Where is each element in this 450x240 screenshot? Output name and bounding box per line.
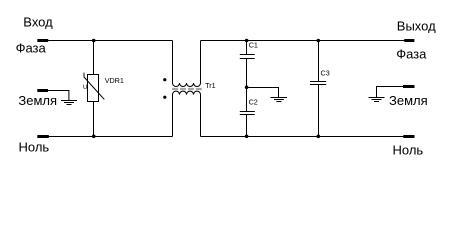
svg-text:VDR1: VDR1: [105, 76, 124, 85]
svg-text:Выход: Выход: [397, 18, 436, 33]
svg-text:C1: C1: [249, 41, 258, 50]
svg-text:Ноль: Ноль: [19, 140, 50, 155]
svg-text:C3: C3: [321, 69, 330, 78]
svg-text:Земля: Земля: [18, 93, 57, 108]
svg-text:C2: C2: [249, 98, 258, 107]
svg-text:Земля: Земля: [389, 93, 428, 108]
svg-text:U: U: [83, 84, 87, 91]
svg-text:Фаза: Фаза: [16, 41, 47, 56]
svg-text:Tr1: Tr1: [205, 81, 216, 90]
svg-text:Фаза: Фаза: [396, 47, 427, 62]
svg-text:Вход: Вход: [23, 15, 53, 30]
svg-text:Ноль: Ноль: [393, 142, 424, 157]
